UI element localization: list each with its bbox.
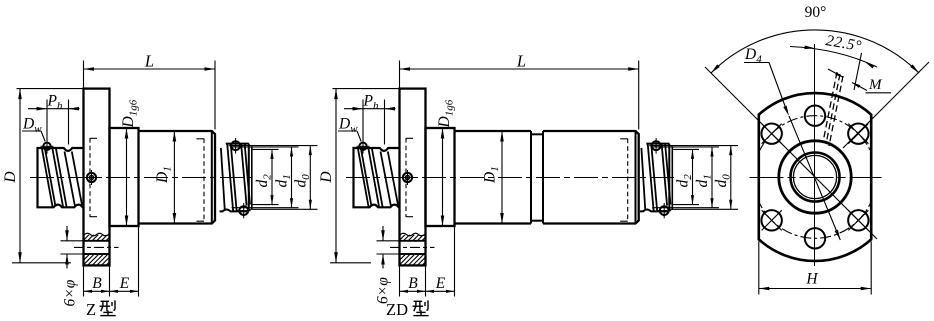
ZD-type stub ball bottom — [660, 206, 669, 215]
end view bolt hole top — [805, 106, 825, 126]
ZD-type dimension D1g6 — [442, 128, 444, 226]
Z-type screw shaft — [38, 148, 84, 207]
svg-text:90°: 90° — [805, 4, 827, 21]
ZD-type centerline — [346, 177, 676, 179]
end view dimension 22.5deg arc — [790, 47, 877, 68]
Z-type hidden ball track (flange) — [89, 138, 91, 217]
Z-type centerline — [30, 177, 252, 179]
Z-type spigot cylinder — [110, 128, 139, 226]
svg-text:E: E — [119, 275, 130, 292]
Z-type dimension Ph — [46, 100, 48, 142]
svg-text:H: H — [805, 271, 818, 288]
Z-type screw stub thread — [221, 148, 225, 209]
svg-text:L: L — [144, 52, 154, 71]
Z-type flange bolt hole section — [85, 233, 110, 236]
end view bolt hole lower-right — [848, 210, 868, 230]
ZD-type dimension D1 — [501, 131, 503, 224]
end view bolt hole upper-left — [761, 123, 781, 143]
Z-type stub ball bottom — [239, 206, 248, 215]
flange end view — [705, 4, 929, 295]
end view dimension 90deg arc — [711, 30, 919, 73]
Z-type hidden bore right end — [203, 139, 205, 222]
Z-type dimension d1 — [232, 146, 299, 148]
Z-type ball marker in flange — [87, 173, 96, 182]
end view horizontal centerline — [750, 177, 882, 179]
end view spigot circle — [779, 141, 851, 213]
end view screw bore major circle — [791, 153, 840, 202]
end view bolt hole bottom — [805, 228, 825, 248]
ZD-type dimension E — [426, 290, 455, 292]
Z-type screw thread flank lines — [42, 149, 53, 207]
ZD-type dimension D — [333, 88, 400, 90]
ZD-type ball Dw on screw — [359, 143, 366, 150]
ZD-type bolt hole centerline — [390, 246, 435, 248]
Z-type dimension D1 — [173, 131, 175, 224]
end view 45-deg diagonal (upper-left to lower-right) — [705, 67, 877, 239]
ZD-type ball screw nut side view — [318, 52, 738, 320]
ZD-type body wrench groove — [530, 131, 532, 224]
end view tapped hole M axis — [854, 53, 862, 90]
svg-text:L: L — [516, 52, 526, 71]
ZD-type dimension 6xφ — [377, 240, 400, 242]
ZD-type hidden bore right end — [627, 139, 629, 222]
Z-type stub ball top — [231, 141, 240, 150]
end view bolt hole lower-left — [761, 210, 781, 230]
Z-type dimension E — [110, 290, 139, 292]
ZD-type flange bolt hole section — [401, 233, 426, 236]
end view screw bore minor circle — [793, 155, 836, 198]
Z-type dimension L — [83, 61, 85, 88]
Z-type dimension 6xφ — [61, 240, 84, 242]
end view flange outline — [759, 93, 871, 261]
svg-text:M: M — [868, 77, 883, 93]
end view vertical centerline — [814, 44, 816, 266]
svg-text:6×φ: 6×φ — [62, 279, 79, 306]
Z-type bolt hole centerline — [74, 246, 119, 248]
Z-type dimension D1g6 — [126, 128, 128, 226]
end view dimension M arrows — [828, 69, 844, 78]
ZD-type nut body — [455, 131, 532, 224]
end view 45-deg diagonal (upper-right) — [843, 62, 929, 148]
Z-type flange — [84, 89, 110, 266]
ZD-type hidden ball track (flange) — [405, 138, 407, 217]
end view tapped hole M dashed lines — [823, 72, 837, 142]
Z-type ball screw nut side view — [2, 52, 318, 320]
svg-text:D: D — [318, 171, 335, 183]
Z-type ball Dw on screw — [43, 143, 50, 150]
ZD-type dimension d1 — [652, 146, 719, 148]
ZD-type flange — [400, 89, 426, 266]
svg-text:D: D — [2, 171, 19, 183]
ZD-type spigot cylinder — [426, 128, 455, 226]
Z-type dimension d0 — [232, 145, 318, 147]
ZD-type stub ball top — [652, 141, 661, 150]
Z-type dimension d2 — [252, 148, 279, 150]
ZD-type screw stub thread — [641, 148, 645, 209]
ZD-type ball marker in flange — [403, 173, 412, 182]
ZD-type dimension L — [399, 61, 401, 88]
ZD-type dimension d0 — [652, 145, 738, 147]
Z-type dimension B — [83, 265, 85, 296]
svg-text:B: B — [92, 275, 102, 292]
svg-text:E: E — [435, 275, 446, 292]
svg-text:B: B — [408, 275, 418, 292]
end view dimension H — [758, 241, 760, 294]
Z-type nut body — [139, 131, 216, 224]
ZD-type dimension B — [399, 265, 401, 296]
svg-text:Z: Z — [86, 300, 96, 319]
ZD-type dimension d2 — [672, 148, 699, 150]
svg-text:ZD: ZD — [386, 300, 408, 319]
ZD-type dimension Ph — [362, 100, 364, 142]
ZD-type screw thread flank lines — [358, 149, 369, 207]
Z-type dimension D — [17, 88, 84, 90]
ZD-type screw shaft — [354, 148, 400, 207]
end view bolt hole upper-right — [848, 123, 868, 143]
